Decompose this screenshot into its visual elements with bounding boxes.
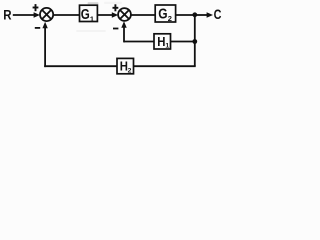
wire vertical up into S2 (with arrowhead)	[121, 21, 126, 42]
node dot on output line	[192, 12, 197, 17]
wire vertical from output node down	[194, 15, 196, 66]
wire S1 to block G1	[53, 14, 79, 16]
wire R to summing junction S1 (with arrowhead)	[13, 12, 40, 17]
scan smudge top	[88, 2, 99, 4]
svg-text:G: G	[81, 7, 90, 23]
wire vertical up into S1 (with arrowhead)	[42, 22, 47, 67]
summing junction S2 (circle with X)	[118, 8, 131, 21]
plus sign at S2	[113, 4, 119, 11]
wire G2 to output node	[176, 14, 195, 16]
plus sign at S1	[33, 4, 39, 11]
wire H1 to S2 feedback corner	[124, 41, 154, 43]
summing junction S1 (circle with X)	[40, 8, 53, 21]
svg-text:C: C	[214, 7, 222, 22]
minus sign at S2	[113, 28, 118, 30]
wire G1 to summing junction S2 (with arrowhead)	[97, 12, 118, 17]
svg-text:H: H	[157, 34, 165, 49]
wire bottom rail right segment	[134, 65, 196, 67]
block G2	[155, 5, 175, 23]
block G1	[80, 5, 98, 23]
block H1	[154, 34, 171, 50]
node dot at H1 branch	[192, 39, 197, 44]
svg-text:1: 1	[90, 14, 94, 23]
minus sign at S1	[35, 27, 40, 29]
wire node to output C (with arrowhead)	[195, 12, 213, 17]
svg-text:R: R	[3, 7, 12, 22]
background	[0, 0, 224, 83]
svg-text:2: 2	[168, 14, 172, 23]
svg-text:2: 2	[128, 67, 132, 74]
svg-text:1: 1	[165, 43, 169, 50]
wire S2 to block G2	[132, 14, 156, 16]
svg-text:G: G	[158, 7, 167, 23]
block H2	[117, 58, 134, 74]
wire node to block H1	[171, 41, 195, 43]
wire bottom rail left segment	[44, 65, 117, 67]
